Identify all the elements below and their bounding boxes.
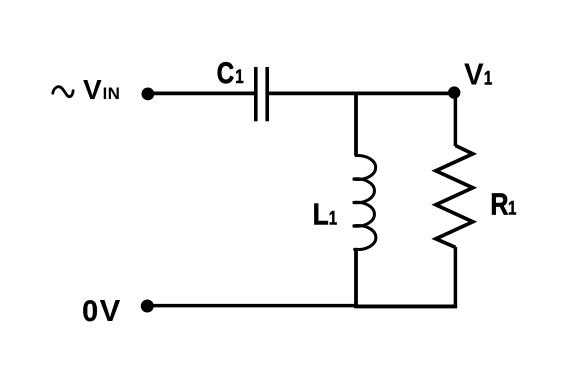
svg-text:L: L	[313, 198, 329, 232]
svg-text:1: 1	[235, 65, 244, 87]
svg-text:I: I	[103, 85, 108, 103]
svg-text:V: V	[83, 74, 102, 105]
svg-text:V: V	[464, 58, 484, 92]
wire VIN node to capacitor	[148, 92, 256, 96]
label 0V	[82, 293, 121, 328]
node V1 junction dot	[448, 86, 460, 98]
resistor R1 zigzag	[436, 146, 473, 248]
svg-text:N: N	[108, 84, 120, 103]
label V1	[464, 58, 493, 92]
label VIN	[83, 74, 120, 105]
svg-text:1: 1	[508, 196, 517, 218]
node 0V terminal dot	[141, 300, 154, 313]
node VIN terminal dot	[142, 88, 155, 101]
label C1	[217, 55, 244, 89]
svg-text:0: 0	[82, 294, 98, 328]
wire bottom rail left segment	[147, 304, 356, 308]
wire capacitor to node V1	[267, 92, 455, 96]
svg-text:1: 1	[484, 67, 493, 89]
wire L1 bottom lead	[354, 249, 358, 306]
wire V1 node to resistor	[454, 93, 458, 146]
svg-text:C: C	[217, 55, 234, 89]
capacitor C1 left plate	[254, 67, 258, 121]
svg-text:V: V	[100, 293, 121, 328]
label L1	[313, 198, 338, 232]
wire resistor to bottom rail	[454, 247, 458, 308]
inductor L1 coil	[353, 155, 376, 249]
wire junction to L1 top	[354, 93, 358, 155]
label R1	[490, 186, 516, 221]
ac source symbol (sine tilde)	[53, 87, 73, 97]
capacitor C1 right plate	[265, 67, 269, 121]
svg-text:1: 1	[329, 207, 338, 229]
wire bottom rail right segment	[354, 304, 457, 308]
svg-text:R: R	[490, 186, 508, 221]
